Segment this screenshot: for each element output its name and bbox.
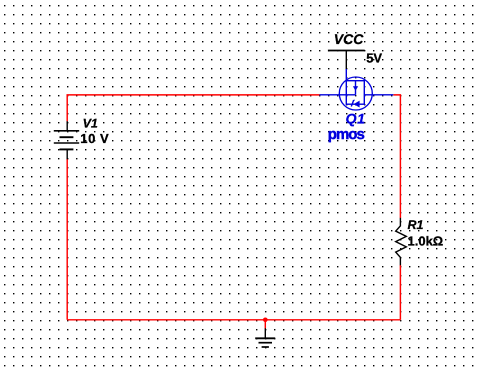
body circle — [339, 77, 372, 110]
svg-text:V1: V1 — [83, 116, 98, 130]
svg-text:10 V: 10 V — [80, 131, 109, 146]
pin: gate (left) — [320, 94, 356, 96]
wire: R1 bottom to ground rail — [399, 265, 401, 320]
transistor Q1 pmos — [320, 69, 394, 110]
wire: ground stub — [264, 320, 266, 329]
wire: bottom ground rail — [67, 319, 400, 321]
svg-text:1.0kΩ: 1.0kΩ — [408, 234, 444, 249]
wire: left vertical V1 bottom to ground rail — [66, 159, 68, 320]
channel rectangle — [346, 81, 364, 105]
pin: source (top) — [345, 69, 347, 81]
middle stub with down arrow — [355, 81, 357, 95]
VCC power symbol — [328, 51, 365, 70]
svg-text:pmos: pmos — [328, 126, 365, 143]
battery V1 — [54, 121, 79, 159]
svg-text:R1: R1 — [408, 218, 424, 232]
svg-text:5V: 5V — [366, 51, 382, 66]
resistor R1 — [396, 218, 407, 265]
junction dot on ground rail — [263, 318, 268, 323]
slash mark — [351, 100, 353, 107]
wire: top-left corner V1 to gate net — [67, 95, 319, 122]
svg-text:VCC: VCC — [334, 31, 364, 47]
svg-text:Q1: Q1 — [346, 110, 366, 126]
wire: gate to right corner net (red part) — [393, 95, 400, 218]
pin: drain (right) — [364, 94, 393, 96]
ground — [255, 328, 275, 347]
bulk arrow on bottom bar — [354, 101, 360, 108]
